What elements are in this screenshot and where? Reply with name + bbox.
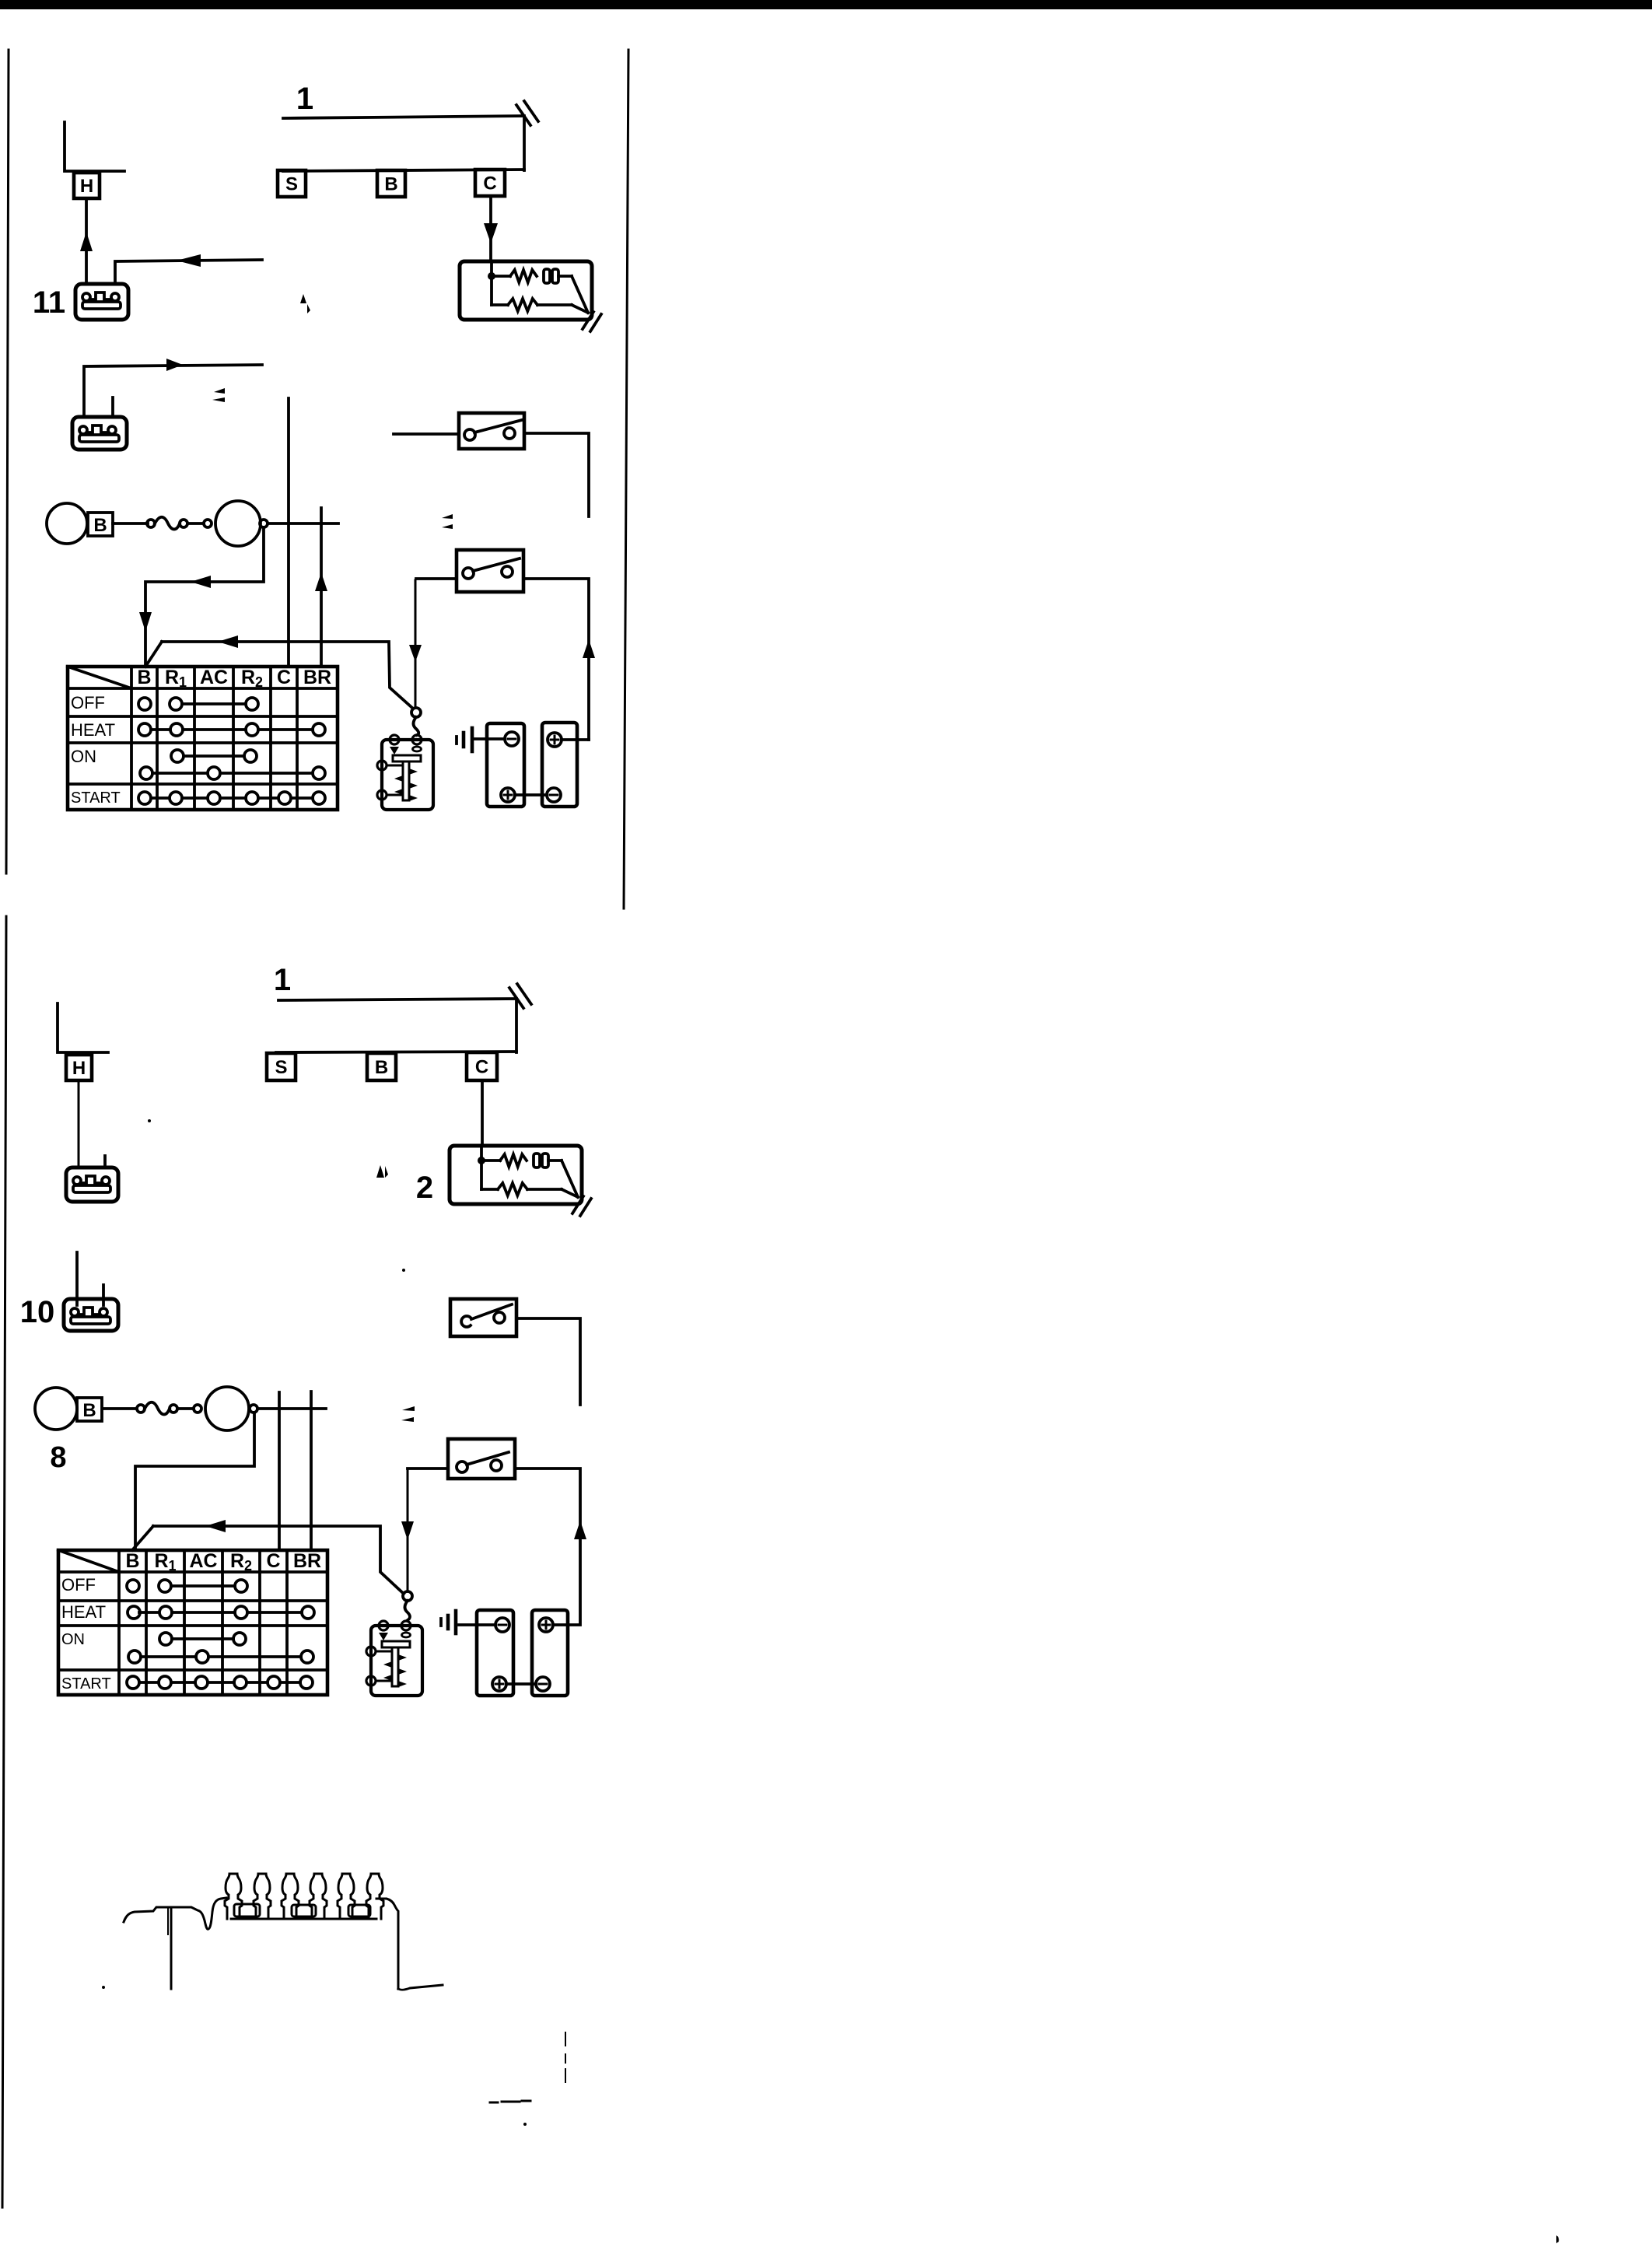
inline fuse [147, 517, 212, 530]
spark plug row base line [231, 1918, 376, 1920]
engine cylinder head sketch outline left [124, 1898, 226, 1929]
battery terminal minus (left top) [505, 732, 519, 746]
svg-text:H: H [72, 1058, 86, 1079]
H bracket wire [58, 1003, 108, 1052]
left page border (lower segment) [2, 916, 6, 2207]
wire from fusible link 11 right terminal [115, 260, 262, 281]
svg-text:BR: BR [303, 667, 331, 688]
fusible link (lower, unlabeled) [72, 417, 127, 450]
junction circle [250, 1405, 257, 1413]
terminal C [475, 170, 505, 196]
svg-text:C: C [475, 1057, 488, 1078]
terminal B [367, 1053, 396, 1080]
battery terminal plus (left bottom) [492, 1677, 506, 1691]
current arrow up on BR wire [315, 572, 327, 591]
battery cell left [487, 723, 524, 807]
battery cell right [542, 723, 577, 807]
svg-text:S: S [275, 1057, 287, 1078]
current arrow left on junction wire [191, 576, 211, 588]
stray marks [442, 514, 453, 529]
current arrow left on table wire [218, 635, 238, 648]
current arrow down on feed wire [401, 1521, 414, 1540]
stub wire on link 10 right terminal [102, 1285, 105, 1305]
ignition coil circle [205, 1387, 249, 1430]
current arrow down on junction wire [139, 612, 152, 632]
spark plug 2 [254, 1874, 271, 1919]
svg-text:C: C [266, 1550, 280, 1572]
svg-text:S: S [285, 174, 298, 195]
continuation hatch on wire 1 [516, 101, 538, 125]
current arrow up on battery wire [583, 639, 595, 658]
wire to table BR terminal [320, 508, 323, 667]
spark plug 1 [225, 1874, 242, 1919]
svg-text:AC: AC [189, 1550, 217, 1572]
engine sketch right foot [398, 1985, 443, 1990]
svg-text:H: H [80, 176, 93, 197]
wire to table C terminal [278, 1392, 281, 1550]
ignition switch connection table [68, 667, 338, 810]
wire table to relay contact [162, 642, 412, 708]
current arrow up on battery wire [574, 1521, 586, 1539]
wire to table BR terminal [310, 1392, 313, 1550]
current arrow left on table wire [205, 1520, 226, 1532]
squiggle wire to relay terminal [414, 717, 419, 735]
wire out of lower switch left [408, 1467, 448, 1470]
battery terminal minus (right bottom) [547, 788, 561, 802]
svg-text:11: 11 [33, 285, 65, 320]
relay contact circle upper [411, 708, 421, 717]
svg-text:B: B [375, 1057, 388, 1078]
junction circle [260, 520, 268, 527]
relay contact circle upper [403, 1591, 412, 1601]
svg-text:B: B [137, 667, 151, 688]
connector 1 bus right side wire [515, 1000, 518, 1052]
stub wire on lower fusible link right terminal [111, 397, 114, 414]
wire from junction to the right [257, 1407, 326, 1410]
neutral start switch (lower) [448, 1439, 515, 1479]
svg-text:R2: R2 [241, 667, 263, 690]
battery symbol with terminal B [47, 503, 113, 544]
stray marks [102, 294, 1559, 2243]
rocker bar 2 [292, 1905, 316, 1917]
engine sketch left vertical lines [168, 1908, 171, 1989]
current arrow up on H wire [80, 232, 93, 251]
wire table to relay contact [153, 1526, 404, 1594]
spark plug 4 [310, 1874, 327, 1919]
clutch/interlock switch (upper) [459, 413, 524, 449]
terminal B [377, 170, 405, 197]
squiggle wire to relay terminal [405, 1601, 411, 1620]
resistor block (ballast resistor unit) [450, 1146, 591, 1216]
current arrow down on C wire [484, 223, 498, 243]
spark plug 3 [282, 1874, 299, 1919]
diagonal wire table corner to contact line [145, 642, 162, 667]
stray marks [376, 1165, 388, 1178]
svg-text:2: 2 [416, 1171, 433, 1205]
terminal H [74, 173, 100, 198]
wire battery B to fuse [113, 522, 148, 525]
battery cell left [477, 1610, 513, 1696]
current arrow down on feed wire [409, 645, 422, 662]
wire junction down and left into table [135, 1413, 254, 1550]
battery terminal minus (left top) [495, 1618, 509, 1632]
wire out of upper switch [524, 433, 589, 516]
wire out of lower switch left [416, 577, 457, 580]
wire from lower fusible link left terminal [84, 365, 262, 414]
resistor block (ballast resistor unit) [460, 261, 601, 331]
rocker bar 3 [348, 1905, 370, 1917]
battery interconnect wire [515, 793, 547, 796]
page top rule [0, 0, 1652, 9]
terminal H [66, 1055, 92, 1080]
svg-text:B: B [125, 1550, 139, 1572]
wire H to fusible link 11 [85, 198, 88, 284]
ground wire from battery minus [472, 737, 505, 740]
svg-text:1: 1 [274, 963, 291, 997]
svg-text:C: C [483, 173, 496, 194]
starter magnetic switch [366, 1621, 422, 1696]
svg-text:OFF: OFF [61, 1575, 96, 1595]
battery terminal plus (right top) [539, 1618, 553, 1632]
wire H to fusible link [78, 1080, 80, 1168]
wire into upper switch [394, 432, 459, 436]
svg-text:C: C [277, 667, 291, 688]
wire to table C terminal [287, 398, 290, 667]
current arrow right on lower link wire [166, 359, 183, 371]
wire ignition switch feed (from interlock switch) [407, 1469, 409, 1591]
battery symbol with terminal B [35, 1388, 102, 1430]
svg-text:ON: ON [61, 1631, 85, 1648]
svg-text:1: 1 [296, 82, 313, 116]
battery cell right [532, 1610, 568, 1696]
wire ignition switch feed (from interlock switch) [415, 580, 417, 706]
stub wire on fusible link right terminal [103, 1156, 107, 1166]
svg-text:B: B [384, 174, 397, 195]
right column divider [624, 50, 628, 908]
diagonal wire table corner to contact line [132, 1526, 153, 1550]
connector 1 bus right side wire [523, 117, 526, 170]
wire battery B to fuse [103, 1407, 137, 1410]
fusible link 10 [64, 1299, 118, 1331]
wire battery plus to switch [562, 738, 589, 741]
terminal S [278, 170, 306, 197]
svg-text:BR: BR [293, 1550, 321, 1572]
stray marks [401, 1406, 415, 1422]
H bracket wire [65, 122, 124, 171]
svg-text:R2: R2 [230, 1550, 252, 1574]
battery interconnect wire [506, 1682, 536, 1686]
terminal S [267, 1053, 296, 1080]
ground wire from battery minus [459, 1623, 495, 1626]
svg-text:START: START [61, 1675, 111, 1693]
svg-text:R1: R1 [154, 1550, 176, 1574]
battery terminal plus (right top) [548, 733, 562, 747]
stray marks [212, 388, 225, 402]
svg-text:HEAT: HEAT [61, 1602, 106, 1622]
spark plug 6 [366, 1874, 383, 1919]
svg-text:B: B [82, 1400, 96, 1421]
fusible link (upper, unlabeled) [66, 1168, 118, 1202]
wire junction down and left [145, 527, 264, 667]
svg-text:B: B [93, 515, 107, 536]
svg-text:AC: AC [200, 667, 228, 688]
ground symbol [441, 1611, 456, 1633]
battery terminal minus (right bottom) [536, 1677, 550, 1691]
connector 1 bus bottom rail [283, 170, 524, 171]
connector 1 bus bottom rail [276, 1052, 516, 1052]
ignition coil circle [215, 501, 261, 546]
continuation hatch on wire 1 [509, 984, 531, 1008]
svg-text:OFF: OFF [71, 693, 105, 712]
wire C to resistor block [481, 1080, 484, 1146]
wire from junction to the right [268, 522, 338, 525]
fusible link 11 [75, 284, 128, 320]
engine sketch right outline [376, 1899, 398, 1989]
svg-text:HEAT: HEAT [71, 720, 115, 740]
svg-text:ON: ON [71, 747, 96, 766]
svg-text:R1: R1 [165, 667, 187, 690]
ground symbol [457, 728, 472, 751]
svg-text:START: START [71, 789, 121, 807]
ignition switch connection table [58, 1550, 327, 1695]
neutral start switch (lower) [457, 550, 523, 592]
left page border (upper segment) [6, 50, 9, 873]
connector 1 bus top wire [283, 116, 524, 118]
starter magnetic switch [377, 735, 433, 810]
clutch/interlock switch (upper) [450, 1299, 516, 1336]
stub wire on link 10 left terminal [75, 1252, 79, 1305]
svg-text:8: 8 [50, 1441, 66, 1474]
svg-text:10: 10 [20, 1295, 55, 1329]
wire out of upper switch [516, 1318, 580, 1405]
battery terminal plus (left bottom) [501, 788, 515, 802]
wire lower switch right to battery positive [515, 1469, 580, 1625]
rocker bar 1 [234, 1904, 260, 1917]
connector 1 bus top wire [278, 999, 516, 1000]
inline fuse [137, 1402, 201, 1415]
current arrow left on link-11 wire [177, 254, 201, 267]
wire lower switch right to battery positive [523, 579, 589, 740]
wire C to resistor block [489, 196, 492, 261]
spark plug 5 [338, 1874, 355, 1919]
terminal C [467, 1052, 497, 1080]
